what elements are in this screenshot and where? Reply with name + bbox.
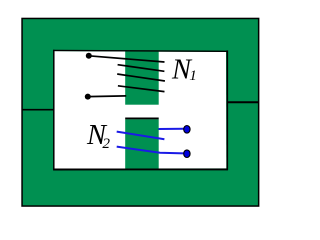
svg-text:1: 1 (189, 67, 197, 84)
svg-text:2: 2 (102, 135, 110, 152)
terminal dot N1 top (86, 53, 92, 59)
winding N1 bottom lead wire (88, 95, 126, 98)
center limb upper half (125, 51, 159, 104)
winding N1 turn 2 (118, 65, 165, 72)
winding N2 turn 1 (117, 132, 165, 140)
terminal dot N2 bottom (184, 150, 190, 158)
winding N2 top lead wire (159, 128, 185, 130)
core joint line right (227, 101, 260, 103)
terminal dot N2 top (184, 126, 190, 134)
core window opening (54, 51, 226, 169)
winding N1 turn 4 (118, 86, 165, 92)
winding N2 turn 2 + bottom lead (117, 147, 184, 154)
winding N1 turn 1 (89, 56, 165, 62)
window border left (53, 50, 55, 171)
window border right (226, 50, 228, 170)
center limb lower half (125, 119, 159, 168)
winding N1 turn 3 (117, 74, 165, 81)
window border top (53, 49, 228, 52)
terminal dot N1 bottom (85, 94, 91, 100)
window border bottom (53, 168, 228, 170)
core joint line left (22, 109, 54, 111)
center limb lower half top edge (125, 118, 159, 120)
core outer rectangle (22, 18, 259, 206)
